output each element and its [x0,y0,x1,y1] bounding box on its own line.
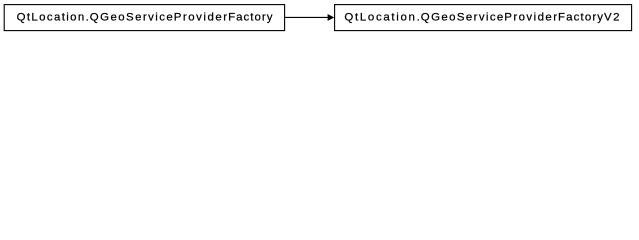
node box QtLocation.QGeoServiceProviderFactory [4,5,284,31]
background [0,0,639,36]
svg-text:Factory: Factory [558,12,603,24]
arrowhead [328,14,335,21]
svg-text:QGeoService: QGeoService [90,12,173,24]
node box QtLocation.QGeoServiceProviderFactoryV2 [335,5,632,31]
svg-text:Factory: Factory [228,12,273,24]
node label QtLocation.QGeoServiceProviderFactory [17,12,273,24]
svg-text:QGeoService: QGeoService [421,12,504,24]
node label QtLocation.QGeoServiceProviderFactoryV2 [344,12,619,24]
edge wire from left box to right box [285,16,328,18]
